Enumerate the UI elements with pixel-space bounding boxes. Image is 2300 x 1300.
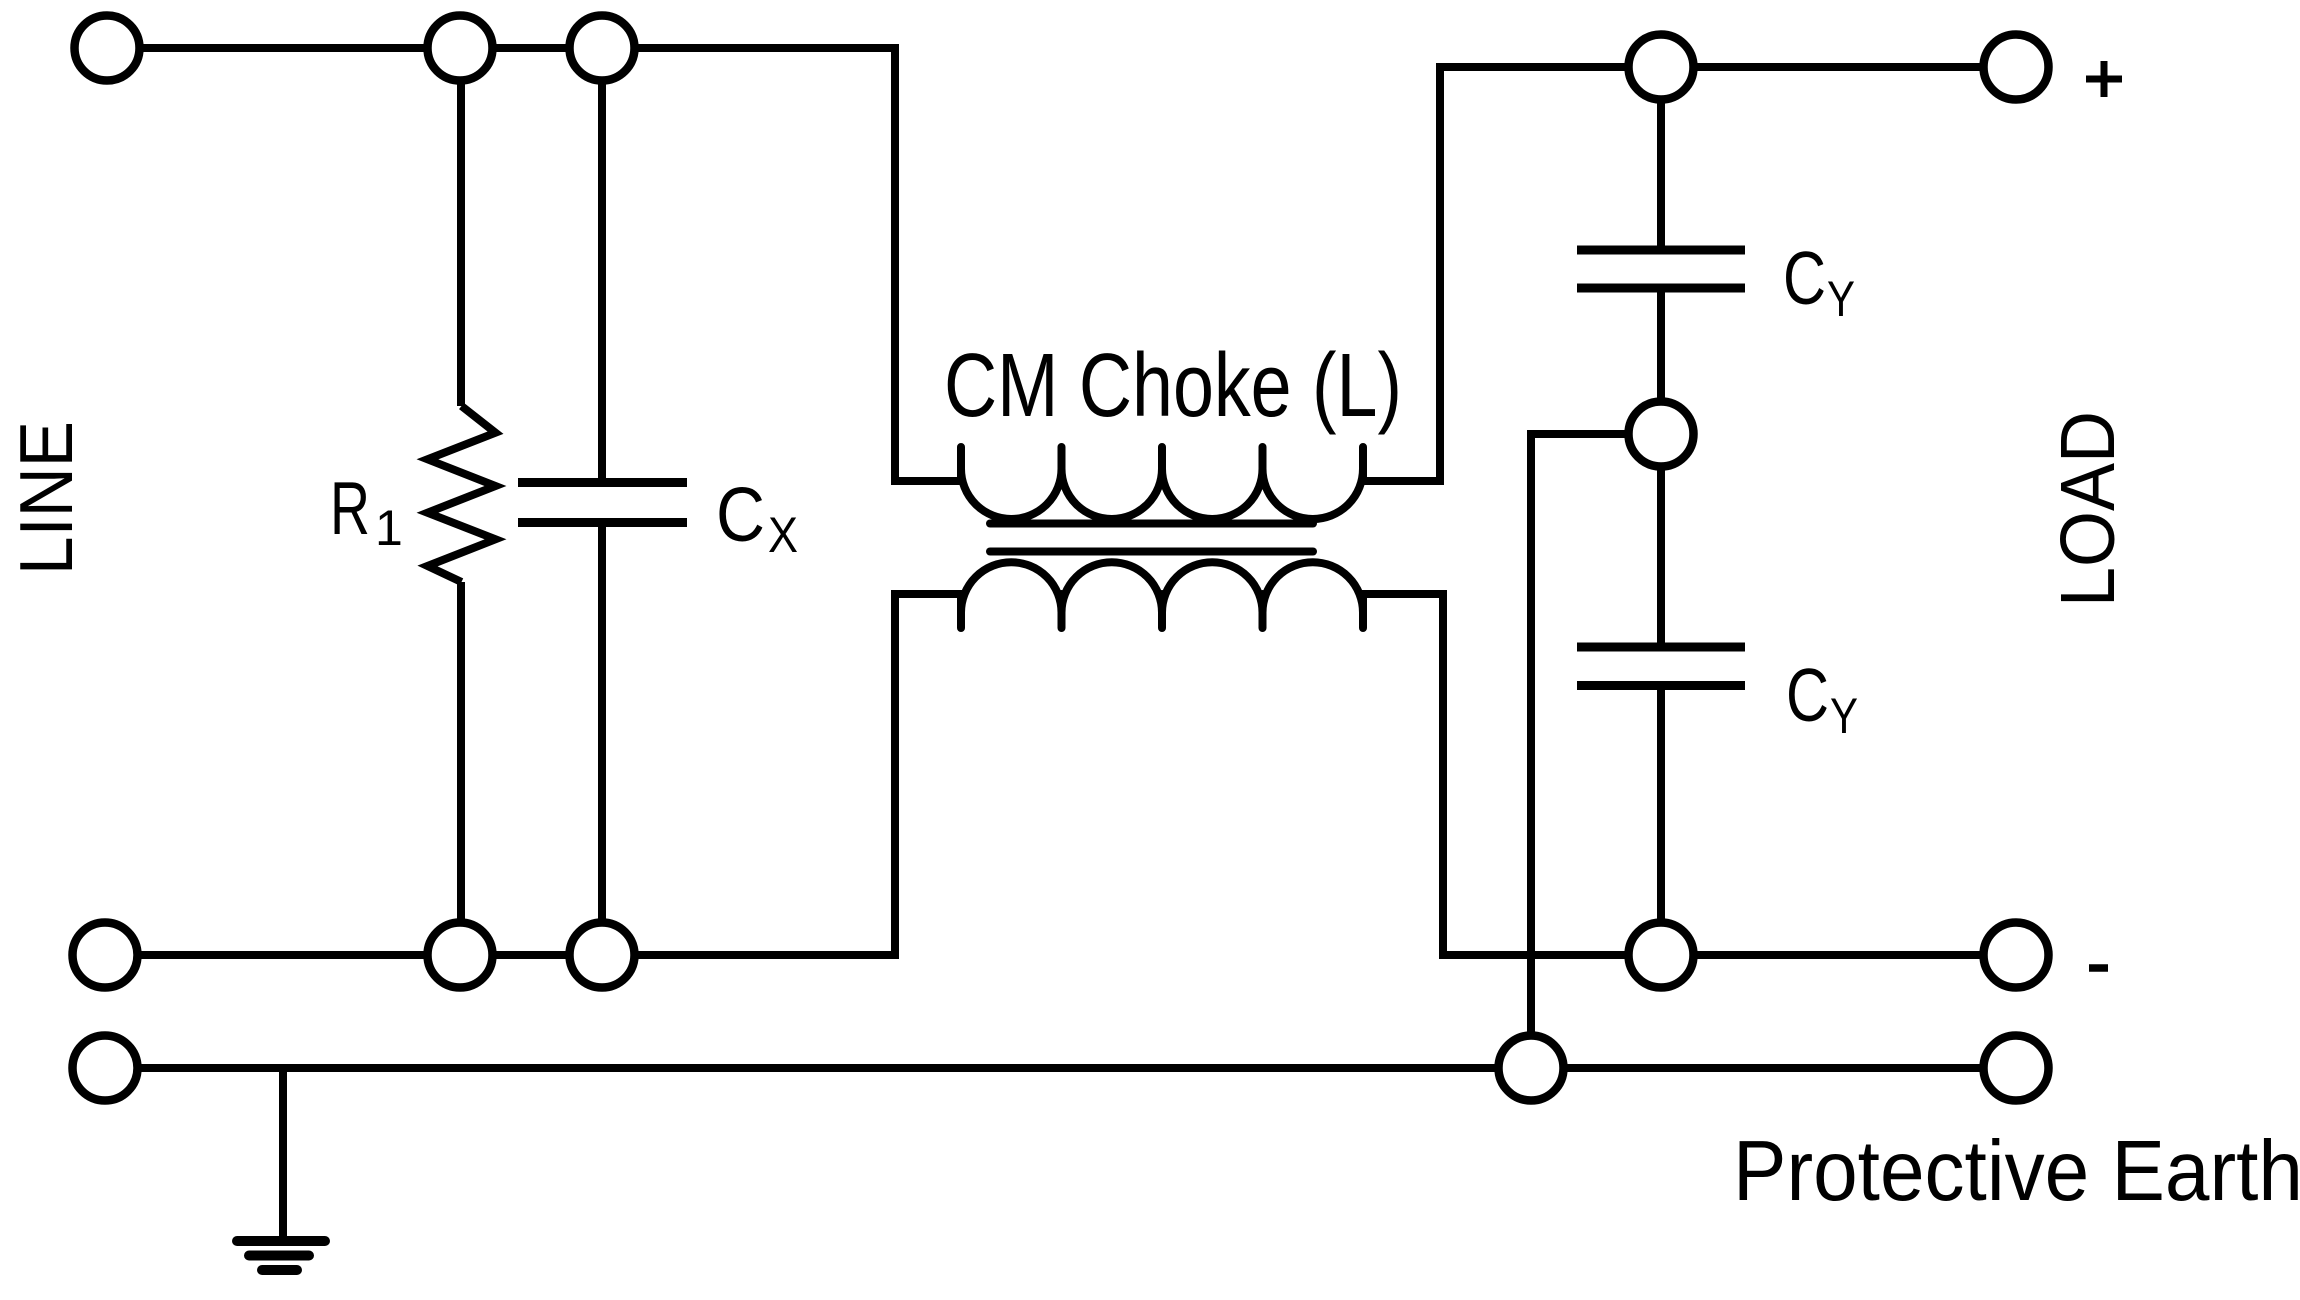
CM choke L bottom winding (961, 562, 1363, 628)
node junction J7 (CY2 bottom on minus rail) (1629, 923, 1694, 988)
terminal LINE protective earth (73, 1036, 138, 1101)
wire top rail (Live) from LINE terminal to choke (107, 48, 963, 481)
wire CY1 lower lead to mid node (1657, 293, 1665, 435)
wire R1 branch upper (457, 48, 465, 406)
terminal LOAD protective earth (1984, 1036, 2049, 1101)
svg-text:C: C (1786, 653, 1829, 737)
wire choke bottom output to - terminal (1360, 594, 2016, 955)
node junction J4 (CX bottom) (570, 923, 635, 988)
resistor R1 (428, 406, 496, 582)
wire CX branch upper (598, 48, 606, 478)
wire bottom rail (Neutral) from LINE terminal to choke (105, 594, 966, 955)
terminal LINE live (75, 16, 140, 81)
node junction J1 (R1 top) (428, 16, 493, 81)
svg-text:C: C (1783, 236, 1826, 320)
svg-text:Y: Y (1827, 271, 1855, 327)
svg-text:X: X (768, 507, 798, 563)
capacitor CY (lower) (1577, 647, 1745, 686)
terminal LINE neutral (73, 923, 138, 988)
CM choke L top winding (961, 447, 1363, 519)
minus sign (2089, 964, 2108, 972)
terminal LOAD minus (1984, 923, 2049, 988)
svg-text:Y: Y (1830, 688, 1858, 744)
wire CY2 lower lead to - rail (1657, 690, 1665, 955)
wire mid node to protective earth junction (1531, 434, 1661, 1068)
node junction J3 (R1 bottom) (428, 923, 493, 988)
wire choke top output to + terminal (1363, 67, 2016, 481)
plus sign (2086, 61, 2122, 97)
wire protective earth rail (105, 1064, 2016, 1072)
ground symbol (237, 1241, 325, 1270)
capacitor CY (upper) (1577, 250, 1745, 288)
svg-text:LINE: LINE (4, 421, 88, 575)
CM choke core lines (990, 524, 1313, 552)
svg-text:C: C (716, 472, 765, 558)
wire earth stub (279, 1068, 287, 1241)
capacitor CX (518, 483, 687, 523)
wire mid node to CY2 upper lead (1657, 434, 1665, 643)
node junction J8 (earth branch on PE rail) (1499, 1036, 1564, 1101)
svg-text:CM Choke (L): CM Choke (L) (944, 336, 1402, 436)
node junction J6 (between CY caps) (1629, 402, 1694, 467)
svg-text:Protective Earth: Protective Earth (1733, 1124, 2300, 1219)
terminal LOAD plus (1984, 35, 2049, 100)
node junction J5 (CY1 top) (1629, 35, 1694, 100)
wire CY1 upper lead (1657, 67, 1665, 246)
wire CX branch lower (598, 527, 606, 955)
svg-text:1: 1 (375, 500, 403, 556)
node junction J2 (CX top) (570, 16, 635, 81)
svg-text:LOAD: LOAD (2045, 411, 2131, 607)
svg-text:R: R (330, 466, 370, 550)
wire R1 branch lower (457, 582, 465, 955)
